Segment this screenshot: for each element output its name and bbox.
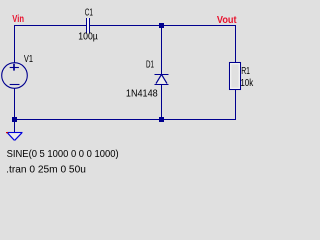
svg-text:.tran 0 25m 0 50u: .tran 0 25m 0 50u bbox=[6, 165, 86, 176]
svg-text:Vout: Vout bbox=[217, 15, 237, 26]
junction at V1 bottom rail bbox=[12, 117, 17, 122]
svg-text:1N4148: 1N4148 bbox=[126, 89, 158, 100]
wire left vertical mid (V1 bottom to ground) bbox=[14, 89, 16, 132]
wire diode bottom (D1 anode to bottom rail) bbox=[161, 85, 163, 121]
svg-text:100µ: 100µ bbox=[78, 31, 98, 42]
diode D1 bbox=[155, 74, 169, 84]
svg-text:R1: R1 bbox=[241, 66, 250, 77]
svg-text:10k: 10k bbox=[240, 78, 254, 89]
svg-text:Vin: Vin bbox=[12, 14, 24, 25]
wire right vertical top (Vout down to R1) bbox=[235, 25, 237, 62]
wire top rail left (Vin to C1 left plate) bbox=[14, 25, 86, 27]
junction at diode top bbox=[159, 23, 164, 28]
port marker red pixel at ground bbox=[6, 132, 8, 133]
svg-text:D1: D1 bbox=[146, 59, 154, 70]
capacitor C1 bbox=[87, 18, 90, 33]
wire top rail right (C1 right plate to Vout corner) bbox=[90, 25, 236, 27]
svg-text:SINE(0 5 1000 0 0 0 1000): SINE(0 5 1000 0 0 0 1000) bbox=[7, 149, 119, 160]
svg-text:V1: V1 bbox=[24, 54, 33, 65]
wire bottom rail bbox=[14, 119, 236, 121]
wire left vertical (Vin node down to V1 top) bbox=[14, 25, 16, 63]
ground bbox=[7, 133, 23, 141]
voltage source V1 bbox=[2, 63, 28, 89]
wire diode top (junction to D1 cathode) bbox=[161, 25, 163, 75]
resistor R1 bbox=[230, 63, 241, 90]
wire right vertical bottom (R1 to bottom rail) bbox=[235, 90, 237, 121]
svg-text:C1: C1 bbox=[85, 8, 93, 19]
junction at diode bottom bbox=[159, 117, 164, 122]
